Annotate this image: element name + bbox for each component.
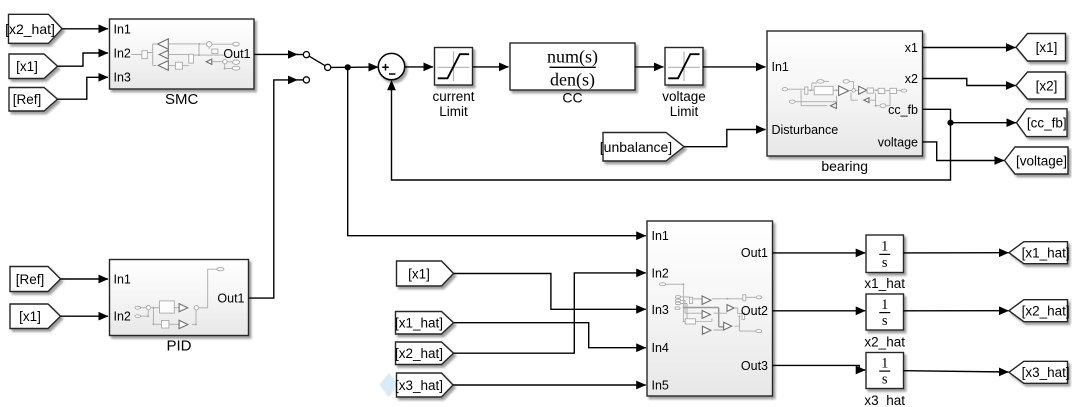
svg-text:[x2_hat]: [x2_hat] bbox=[395, 346, 443, 361]
tag [voltage] (Goto) bbox=[1005, 147, 1069, 174]
svg-text:Disturbance: Disturbance bbox=[772, 123, 839, 137]
svg-text:[voltage]: [voltage] bbox=[1016, 153, 1067, 168]
tag [cc_fb] (Goto) bbox=[1017, 109, 1068, 137]
wire PID Out1 -> switch lower contact bbox=[249, 80, 298, 298]
saturation current Limit bbox=[435, 48, 473, 86]
svg-text:Out1: Out1 bbox=[223, 47, 250, 61]
observer inner sketch bbox=[660, 283, 763, 335]
svg-text:den(s): den(s) bbox=[550, 69, 595, 90]
svg-text:In1: In1 bbox=[652, 229, 669, 243]
svg-text:1: 1 bbox=[881, 355, 888, 371]
bearing inner sketch bbox=[782, 80, 907, 109]
wire [unbalance] -> bearing Disturbance bbox=[684, 130, 766, 147]
tag [x1] (From, to SMC) bbox=[9, 54, 58, 79]
svg-text:In4: In4 bbox=[652, 341, 669, 355]
tag [x1] (From, to observer) bbox=[397, 261, 454, 286]
wire bearing cc_fb -> tag [cc_fb] bbox=[923, 109, 1017, 122]
svg-text:cc_fb: cc_fb bbox=[888, 103, 918, 117]
svg-text:In1: In1 bbox=[114, 22, 131, 36]
svg-text:voltage: voltage bbox=[662, 89, 706, 104]
wire observer Out3 -> integrator x3_hat bbox=[773, 365, 866, 370]
wire observer Out1 -> integrator x1_hat bbox=[773, 252, 866, 254]
subsystem PID bbox=[110, 260, 249, 336]
junction node cc_fb feedback bbox=[947, 120, 953, 126]
svg-text:bearing: bearing bbox=[821, 158, 868, 174]
svg-text:x2_hat: x2_hat bbox=[864, 335, 905, 350]
svg-text:1: 1 bbox=[881, 297, 888, 313]
svg-text:[cc_fb]: [cc_fb] bbox=[1027, 116, 1067, 131]
svg-text:PID: PID bbox=[166, 338, 191, 355]
tag [Ref] (From, to PID) bbox=[10, 267, 61, 292]
svg-text:s: s bbox=[882, 313, 888, 329]
svg-text:In2: In2 bbox=[114, 46, 131, 60]
svg-text:Out1: Out1 bbox=[217, 291, 244, 305]
tag [x1_hat] (Goto) bbox=[1009, 242, 1068, 264]
svg-text:x3_hat: x3_hat bbox=[864, 393, 905, 407]
svg-text:[x3_hat]: [x3_hat] bbox=[395, 378, 443, 393]
selection highlight diamond bbox=[380, 373, 398, 398]
svg-text:Limit: Limit bbox=[670, 104, 699, 119]
svg-text:In5: In5 bbox=[652, 379, 669, 393]
svg-text:Out2: Out2 bbox=[741, 304, 768, 318]
svg-text:[x2_hat]: [x2_hat] bbox=[5, 21, 55, 37]
wire integrator x3_hat -> tag [x3_hat] bbox=[904, 371, 1009, 372]
svg-text:x1: x1 bbox=[905, 41, 918, 55]
svg-text:In2: In2 bbox=[652, 266, 669, 280]
wire SMC Out1 -> switch upper contact bbox=[254, 53, 297, 55]
wire [Ref] -> PID In1 bbox=[61, 278, 109, 280]
svg-text:[Ref]: [Ref] bbox=[16, 272, 45, 287]
wire [Ref] -> SMC In3 bbox=[58, 77, 109, 99]
svg-text:[unbalance]: [unbalance] bbox=[600, 139, 672, 155]
svg-text:In3: In3 bbox=[652, 303, 669, 317]
svg-text:[x1_hat]: [x1_hat] bbox=[395, 316, 443, 331]
tag [x2_hat] (From) bbox=[396, 342, 454, 365]
svg-text:In2: In2 bbox=[114, 310, 131, 324]
tag [x3_hat] (From) bbox=[397, 373, 454, 397]
integrator x3_hat (1/s) bbox=[866, 353, 904, 389]
svg-text:voltage: voltage bbox=[878, 135, 918, 149]
wire [x1_hat] -> observer In4 bbox=[454, 323, 646, 348]
wire [x1] -> observer In3 bbox=[454, 274, 646, 310]
wire bearing x2 -> tag [x2] bbox=[923, 79, 1016, 86]
wire bearing x1 -> tag [x1] bbox=[923, 47, 1016, 49]
svg-text:Out3: Out3 bbox=[741, 359, 768, 373]
wire bearing voltage -> tag [voltage] bbox=[923, 142, 1005, 161]
sum block (+/-) bbox=[378, 53, 404, 79]
integrator x1_hat (1/s) bbox=[866, 235, 904, 273]
svg-text:[x1]: [x1] bbox=[19, 309, 41, 324]
wire [x2_hat] -> observer In2 bbox=[454, 273, 646, 353]
wire [x1] -> SMC In2 bbox=[58, 53, 109, 66]
wire integrator x2_hat -> tag [x2_hat] bbox=[904, 310, 1009, 312]
tag [x2_hat] (Goto) bbox=[1009, 300, 1068, 322]
tag [unbalance] (From) bbox=[603, 133, 684, 162]
SMC inner sketch bbox=[131, 39, 240, 70]
wire [x1] -> PID In2 bbox=[61, 315, 109, 317]
svg-text:Out1: Out1 bbox=[741, 246, 768, 260]
svg-text:[x2_hat]: [x2_hat] bbox=[1022, 304, 1070, 319]
tag [Ref] (From, to SMC) bbox=[9, 88, 58, 112]
tag [x2_hat] (From) bbox=[9, 14, 63, 43]
svg-text:Limit: Limit bbox=[439, 104, 468, 119]
svg-text:num(s): num(s) bbox=[547, 46, 598, 67]
svg-text:[x1]: [x1] bbox=[408, 266, 430, 281]
svg-text:[x2]: [x2] bbox=[1036, 78, 1058, 93]
integrator x2_hat (1/s) bbox=[866, 294, 904, 330]
tag [x1] (From, to PID) bbox=[10, 304, 61, 329]
tag [x1_hat] (From) bbox=[396, 312, 454, 335]
svg-text:In3: In3 bbox=[114, 71, 131, 85]
subsystem observer bbox=[647, 221, 773, 396]
wire [x3_hat] -> observer In5 bbox=[453, 384, 646, 386]
wire integrator x1_hat -> tag [x1_hat] bbox=[904, 252, 1009, 254]
svg-text:current: current bbox=[432, 89, 474, 104]
wire sum -> current Limit bbox=[405, 66, 433, 68]
svg-text:[x1]: [x1] bbox=[16, 59, 38, 74]
tag [x2] (Goto) bbox=[1016, 72, 1066, 99]
svg-text:[x1_hat]: [x1_hat] bbox=[1022, 246, 1070, 261]
svg-text:[Ref]: [Ref] bbox=[13, 92, 42, 107]
svg-text:[x1]: [x1] bbox=[1036, 40, 1058, 55]
wire voltage Limit -> bearing In1 bbox=[703, 66, 766, 68]
svg-text:In1: In1 bbox=[114, 272, 131, 286]
tag [x3_hat] (Goto) bbox=[1009, 361, 1068, 383]
wire observer Out2 -> integrator x2_hat bbox=[773, 310, 866, 312]
wire switch -> sum bbox=[331, 66, 378, 68]
saturation voltage Limit bbox=[665, 48, 703, 86]
feedback wire cc_fb -> sum minus input bbox=[392, 81, 951, 180]
svg-text:SMC: SMC bbox=[165, 91, 199, 108]
svg-text:x1_hat: x1_hat bbox=[864, 276, 905, 291]
subsystem bearing bbox=[767, 31, 923, 156]
transfer fcn CC num(s)/den(s) bbox=[510, 43, 635, 90]
wire CC -> voltage Limit bbox=[635, 66, 664, 68]
manual switch bbox=[303, 52, 331, 84]
svg-text:In1: In1 bbox=[772, 60, 789, 74]
PID inner sketch bbox=[135, 268, 224, 329]
wire current Limit -> CC bbox=[473, 66, 509, 68]
junction node after switch bbox=[345, 64, 351, 70]
subsystem SMC bbox=[110, 19, 255, 89]
svg-text:[x3_hat]: [x3_hat] bbox=[1022, 365, 1070, 380]
tag [x1] (Goto) bbox=[1016, 34, 1066, 62]
wire [x2_hat] -> SMC In1 bbox=[62, 28, 108, 30]
svg-text:CC: CC bbox=[562, 89, 582, 105]
svg-text:s: s bbox=[882, 255, 888, 271]
wire junction -> observer In1 bbox=[348, 67, 646, 235]
svg-text:s: s bbox=[882, 372, 888, 388]
svg-text:x2: x2 bbox=[905, 72, 918, 86]
svg-text:1: 1 bbox=[881, 239, 888, 255]
